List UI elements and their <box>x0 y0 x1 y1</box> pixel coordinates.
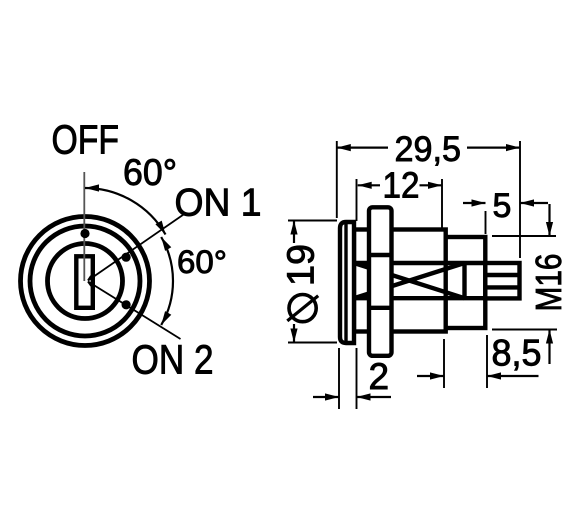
bezel inner edge line <box>344 223 347 343</box>
dim 8,5 extension line left <box>443 339 445 388</box>
svg-text:ON 1: ON 1 <box>175 182 262 225</box>
svg-text:ON 2: ON 2 <box>132 337 214 383</box>
switch body rectangle <box>354 230 446 332</box>
dim 29,5 line <box>337 147 388 149</box>
section line B <box>354 296 485 300</box>
dim 2 extension line left <box>338 348 340 409</box>
shaft spline line 2 <box>485 285 519 289</box>
svg-text:19: 19 <box>280 244 322 286</box>
cross brace diagonal 2 <box>354 263 465 298</box>
dim 12 extension line left <box>356 179 358 221</box>
dim 29,5 extension line left <box>336 141 338 218</box>
dim 8,5 extension line right <box>486 335 488 388</box>
ON 2 position dot <box>122 300 131 309</box>
nut facet line 1 <box>369 253 392 257</box>
dim 5 arrows <box>463 202 486 204</box>
dim dia19 extension line top <box>288 220 337 222</box>
shaft spline line 1 <box>485 273 519 277</box>
svg-text:5: 5 <box>493 187 512 225</box>
front bezel <box>340 222 354 343</box>
svg-text:12: 12 <box>383 165 420 206</box>
60 deg arc ON1 to ON2 <box>161 237 173 325</box>
outer circle of switch face <box>21 217 150 346</box>
svg-text:60°: 60° <box>123 152 177 193</box>
svg-text:60°: 60° <box>177 244 227 280</box>
dim 2 extension line right <box>356 348 358 409</box>
section line A <box>354 261 485 265</box>
svg-text:29,5: 29,5 <box>395 129 462 169</box>
dim 8,5 arrows <box>417 375 444 377</box>
svg-text:8,5: 8,5 <box>492 333 542 374</box>
key shaft threaded end <box>485 263 519 298</box>
cross brace diagonal 1 <box>354 263 465 298</box>
dim 5 extension line <box>485 211 487 234</box>
svg-text:2: 2 <box>369 356 390 397</box>
dim 29,5 extension line right <box>519 141 521 258</box>
OFF position pointer line <box>83 172 85 281</box>
ON 1 leader line <box>88 214 185 281</box>
M16 threaded collar section <box>446 237 486 328</box>
cross brace right edge <box>462 263 466 298</box>
dim 2 arrows <box>313 396 339 398</box>
ON 2 leader line <box>88 282 181 340</box>
dim M16 extension line top <box>492 235 556 237</box>
middle circle of switch face <box>30 226 140 336</box>
60 deg arc OFF to ON1 <box>85 188 166 235</box>
dim M16 arrows <box>548 204 550 236</box>
inner circle of switch face <box>48 244 123 319</box>
dim dia19 extension line bottom <box>288 342 337 344</box>
dim dia19 line <box>293 221 295 244</box>
svg-text:OFF: OFF <box>52 117 120 163</box>
svg-text:M16: M16 <box>528 254 569 312</box>
dim 12 extension line right <box>441 179 443 228</box>
dim M16 extension line bottom <box>492 329 557 331</box>
nut facet line 2 <box>369 306 392 310</box>
dim 12 line <box>358 184 380 186</box>
mounting nut <box>369 207 392 355</box>
OFF position dot <box>80 229 89 238</box>
ON 1 position dot <box>122 253 131 262</box>
dim dia19 text <box>280 244 322 322</box>
key slot <box>76 256 93 308</box>
